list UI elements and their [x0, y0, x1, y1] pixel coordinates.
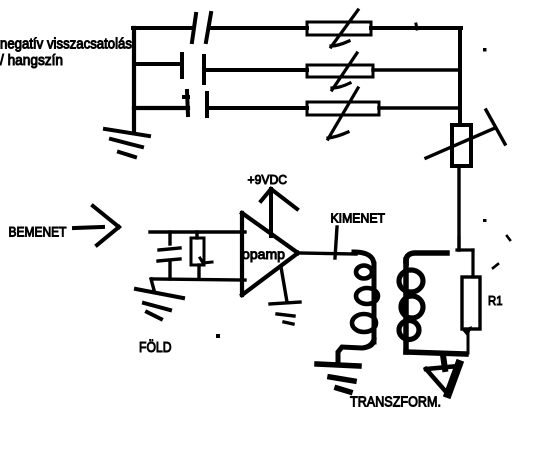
resistor row3: [307, 102, 379, 115]
tick above row1 wire: [416, 24, 417, 29]
KIMENET pointer line: [335, 227, 337, 258]
wire: row2 left segment: [134, 62, 181, 66]
capacitor C3 (bottom row): [184, 91, 207, 116]
wire: right vertical bus: [458, 28, 462, 125]
wire: row2 right segment: [373, 68, 460, 72]
svg-text:R1: R1: [488, 293, 503, 308]
capacitor C1 (top row): [192, 13, 211, 42]
wiper arrow through right resistor: [426, 128, 495, 158]
svg-text:TRANSZFORM.: TRANSZFORM.: [350, 395, 441, 411]
svg-text:opamp: opamp: [242, 246, 285, 262]
wire: row3 left segment: [134, 106, 188, 110]
resistor R1: [462, 277, 480, 329]
resistor R input: [195, 232, 198, 238]
transformer primary winding: [354, 252, 374, 266]
wire: opamp output: [298, 253, 356, 254]
+9VDC arrow: [261, 189, 297, 236]
wire: row3 mid segment: [207, 106, 307, 110]
input arrow: [74, 206, 119, 245]
ground (left bus): [105, 129, 149, 157]
stray specks: [483, 48, 487, 52]
wire: opamp + input: [150, 230, 245, 233]
wire: row1 right segment: [371, 26, 461, 30]
wire: row1 mid segment: [209, 26, 307, 30]
wiper arrow through resistor row1: [331, 10, 358, 47]
wire: below right resistor: [457, 166, 460, 250]
transformer secondary winding: [406, 253, 447, 263]
svg-text:+9VDC: +9VDC: [248, 172, 288, 187]
wire: bus to R1: [457, 238, 460, 250]
wire: row3 right segment: [379, 106, 460, 110]
arrow at R1 bottom: [462, 326, 472, 337]
svg-text:negatív visszacsatolás: negatív visszacsatolás: [0, 37, 132, 53]
wire: row1 left segment: [133, 26, 191, 30]
ground (input): [136, 289, 183, 319]
ground arrow (secondary): [443, 355, 445, 369]
svg-text:KIMENET: KIMENET: [331, 211, 386, 226]
svg-text:/ hangszín: / hangszín: [0, 53, 63, 69]
svg-text:FÖLD: FÖLD: [139, 338, 172, 356]
variable resistor (right side): [452, 125, 471, 166]
wire: opamp - input: [152, 279, 245, 280]
wiper arrow through resistor row3: [328, 88, 358, 139]
ground (primary): [317, 364, 359, 392]
resistor row1: [307, 22, 371, 35]
resistor row2: [307, 65, 373, 77]
ground (opamp): [281, 267, 287, 302]
capacitor C4 (input): [158, 232, 180, 279]
wiper arrow through resistor row2: [332, 53, 357, 90]
wire: left vertical bus: [132, 28, 136, 133]
speck near FÖLD: [216, 334, 220, 338]
op-amp U1: [242, 213, 298, 295]
wire: row2 mid segment: [205, 68, 307, 72]
capacitor C2 (middle row): [182, 54, 204, 83]
svg-text:BEMENET: BEMENET: [9, 225, 67, 240]
